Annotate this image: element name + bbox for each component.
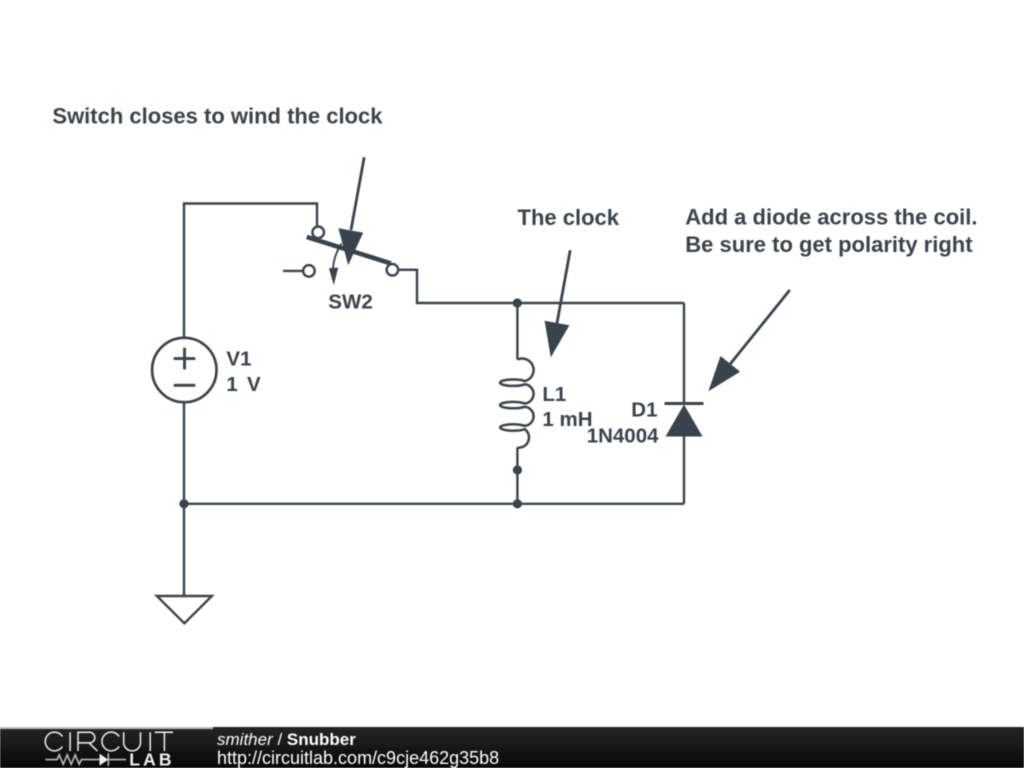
logo letter C — [102, 733, 119, 752]
svg-text:SW2: SW2 — [328, 290, 372, 313]
svg-text:V1: V1 — [226, 347, 251, 370]
annotation arrow to diode — [708, 290, 789, 391]
svg-text:Switch closes to wind the cloc: Switch closes to wind the clock — [52, 103, 383, 128]
switch SW2 lever — [307, 237, 391, 264]
wire V1 minus terminal down to ground — [183, 404, 185, 597]
wire from V1 plus terminal up and right to switch top terminal — [184, 204, 317, 337]
wire diode branch vertical top — [683, 303, 685, 404]
diode D1 cathode bar — [665, 402, 704, 405]
node junction dot on bottom net below inductor — [513, 499, 522, 508]
V1 minus sign — [174, 384, 196, 387]
logo letter R — [78, 733, 97, 752]
logo letter I — [69, 733, 71, 752]
voltage source V1 circle — [152, 338, 216, 402]
logo diode triangle — [100, 754, 109, 766]
logo letter C — [45, 733, 62, 752]
svg-text:1N4004: 1N4004 — [587, 425, 659, 448]
svg-text:1 mH: 1 mH — [542, 408, 592, 431]
svg-text:Be sure to get polarity right: Be sure to get polarity right — [685, 232, 973, 257]
svg-text:L1: L1 — [542, 383, 566, 406]
node junction dot at clock top node — [513, 298, 522, 307]
V1 plus sign — [174, 348, 196, 370]
logo letter T — [155, 733, 173, 752]
inductor L1 coil — [500, 359, 534, 448]
svg-text:Add a diode across the coil.: Add a diode across the coil. — [685, 205, 977, 230]
svg-text:1 V: 1 V — [226, 373, 261, 396]
footer author / title line — [217, 730, 356, 750]
footer bar — [0, 727, 1024, 768]
footer logo background highlight strip — [0, 727, 213, 729]
node junction dot at V1 bottom net — [179, 499, 188, 508]
switch SW2 lower-left throw stub wire — [283, 270, 302, 272]
svg-text:D1: D1 — [631, 398, 657, 421]
wire inductor bottom stub — [516, 448, 518, 504]
svg-text:The clock: The clock — [518, 205, 620, 230]
switch SW2 top-left terminal circle — [312, 227, 324, 239]
CircuitLab logo wordmark and resistor-diode doodle — [0, 726, 200, 767]
logo letter I — [149, 733, 151, 752]
annotation arrow to switch — [338, 157, 364, 265]
diode D1 anode triangle — [666, 405, 703, 437]
switch SW2 closing-motion curved arrow — [329, 244, 342, 286]
ground symbol — [157, 596, 212, 623]
node junction dot at inductor bottom terminal — [513, 465, 522, 474]
footer url line — [217, 748, 499, 768]
wire inductor top stub — [516, 303, 518, 360]
logo resistor and diode doodle — [45, 754, 126, 767]
wire diode branch vertical bottom — [683, 437, 685, 504]
wire bottom horizontal net from V1 minus to diode branch — [184, 503, 684, 505]
switch SW2 lower-left throw terminal circle — [303, 265, 315, 277]
wire from switch right terminal to clock top node — [399, 270, 517, 303]
switch SW2 right terminal circle — [387, 264, 399, 276]
wire top horizontal from node A to diode branch — [517, 302, 684, 304]
annotation arrow to inductor — [545, 250, 571, 357]
logo letter U — [124, 733, 141, 752]
svg-text:LAB: LAB — [129, 750, 174, 768]
